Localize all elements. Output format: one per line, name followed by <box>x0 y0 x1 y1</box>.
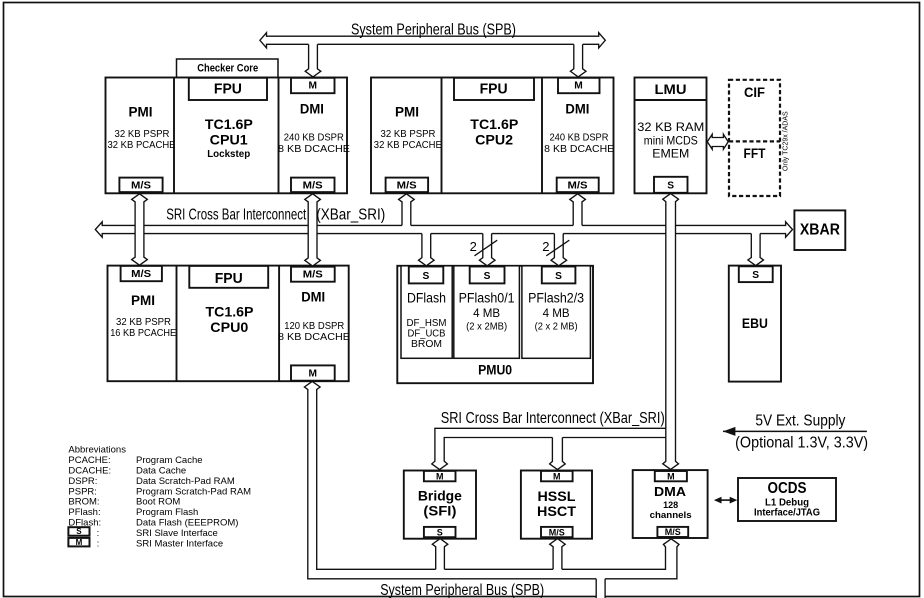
divider CPU2 PMI/core <box>441 78 443 194</box>
svg-text:PFlash:: PFlash: <box>68 507 100 518</box>
svg-text:LMU: LMU <box>655 82 687 97</box>
block XBAR box <box>794 210 845 250</box>
svg-text:PCACHE:: PCACHE: <box>68 455 110 466</box>
svg-text:Checker Core: Checker Core <box>197 62 258 74</box>
svg-text:FFT: FFT <box>744 146 767 161</box>
svg-text:System Peripheral Bus (SPB): System Peripheral Bus (SPB) <box>351 22 516 39</box>
svg-text:M: M <box>667 471 675 481</box>
svg-text:M: M <box>309 368 318 379</box>
wire arrow bottom SPB to HSSL M/S <box>550 539 566 572</box>
svg-text:Abbreviations: Abbreviations <box>68 445 126 456</box>
svg-text:32 KB PSPR: 32 KB PSPR <box>381 129 436 140</box>
svg-text:(XBar_SRI): (XBar_SRI) <box>316 206 385 223</box>
block CPU1 cluster outline <box>106 78 348 194</box>
svg-text:M/S: M/S <box>303 181 323 192</box>
bus bottom SPB pipe (CPU0 M to DMA M/S) <box>304 381 679 578</box>
svg-text:32 KB PCACHE: 32 KB PCACHE <box>374 140 442 151</box>
wire arrow SRI bus to PFlash2/3 S <box>551 231 567 265</box>
svg-text:TC1.6P: TC1.6P <box>470 117 518 132</box>
block CIF/FFT dashed box <box>729 80 780 196</box>
svg-text:SRI Master Interface: SRI Master Interface <box>136 538 223 549</box>
svg-text:FPU: FPU <box>480 81 508 97</box>
svg-text:Boot ROM: Boot ROM <box>136 497 180 508</box>
svg-text:8 KB DCACHE: 8 KB DCACHE <box>544 144 614 155</box>
svg-text:Bridge: Bridge <box>418 487 462 503</box>
legend M box <box>68 538 89 547</box>
svg-text:mini MCDS: mini MCDS <box>644 134 698 148</box>
svg-text:M: M <box>574 81 583 92</box>
wire arrow DMA to OCDS (black double) <box>718 499 733 501</box>
svg-text:2: 2 <box>470 239 477 254</box>
port CPU0 PMI M/S box <box>121 266 162 281</box>
arrowhead 5V supply <box>723 427 735 436</box>
block CPU2 FPU box <box>454 78 534 100</box>
bus-width marker slash PFlash0/1 <box>475 240 498 256</box>
block PMU0 outline <box>397 266 593 383</box>
svg-text:SRI Cross Bar Interconnect: SRI Cross Bar Interconnect <box>166 206 306 223</box>
svg-text:8 KB DCACHE: 8 KB DCACHE <box>278 332 350 343</box>
svg-text:Program Cache: Program Cache <box>136 455 203 466</box>
svg-text:FPU: FPU <box>215 271 243 287</box>
wire 5V supply line <box>723 430 867 432</box>
port Bridge M box <box>424 471 456 481</box>
block PFlash0/1 section <box>454 266 520 359</box>
svg-text:M: M <box>553 471 561 481</box>
svg-text:4 MB: 4 MB <box>473 306 500 320</box>
svg-text:120 KB DSPR: 120 KB DSPR <box>284 321 344 332</box>
svg-text:(Optional 1.3V, 3.3V): (Optional 1.3V, 3.3V) <box>735 434 868 451</box>
svg-text:XBAR: XBAR <box>800 222 840 239</box>
svg-text:S: S <box>752 270 759 281</box>
svg-text:DMI: DMI <box>565 101 589 116</box>
svg-text:240 KB DSPR: 240 KB DSPR <box>550 133 609 144</box>
divider CPU0 core/DMI <box>278 266 280 382</box>
block CPU0 FPU box <box>189 266 268 288</box>
block CPU2 cluster outline <box>371 78 614 194</box>
port PFlash2/3 S box <box>542 267 576 284</box>
block HSSL box <box>521 471 592 539</box>
divider CPU2 core/DMI <box>541 78 543 194</box>
svg-text:Program Scratch-Pad RAM: Program Scratch-Pad RAM <box>136 486 251 497</box>
svg-text:M/S: M/S <box>549 527 565 537</box>
svg-text:TC1.6P: TC1.6P <box>205 117 253 132</box>
svg-text:S: S <box>76 527 82 536</box>
port CPU2 DMI M/S box <box>557 178 599 193</box>
port DMA M/S box <box>657 527 688 537</box>
svg-text:DMA: DMA <box>654 485 686 499</box>
svg-text:M/S: M/S <box>665 527 681 537</box>
svg-text:(2 x 2MB): (2 x 2MB) <box>466 322 507 333</box>
svg-text:PMI: PMI <box>129 105 153 120</box>
svg-text:PMI: PMI <box>131 293 155 308</box>
svg-text:Only TC29x /ADAS: Only TC29x /ADAS <box>783 111 790 171</box>
divider CPU1 PMI/core <box>173 78 175 194</box>
svg-text:M: M <box>436 471 444 481</box>
port CPU2 DMI M box <box>558 78 600 93</box>
block CPU0 cluster outline <box>108 266 349 382</box>
bus-width marker slash PFlash2/3 <box>546 240 569 256</box>
block PFlash2/3 section <box>522 266 591 359</box>
divider LMU header <box>635 99 707 101</box>
svg-text:channels: channels <box>650 510 692 520</box>
port Bridge S box <box>424 527 456 537</box>
svg-text:CPU2: CPU2 <box>475 133 513 148</box>
svg-text::: : <box>97 528 100 539</box>
svg-text:128: 128 <box>663 500 678 510</box>
port CPU1 PMI M/S box <box>119 178 162 193</box>
svg-text:DMI: DMI <box>300 101 324 116</box>
svg-text:M/S: M/S <box>397 181 417 192</box>
port DMA M box <box>655 471 687 481</box>
svg-text:PFlash2/3: PFlash2/3 <box>528 290 584 305</box>
svg-text:32 KB PSPR: 32 KB PSPR <box>116 317 171 328</box>
svg-text:CPU0: CPU0 <box>210 320 248 335</box>
wire arrow SRI bus to PFlash0/1 S <box>479 231 495 265</box>
wire arrow LMU S to DMA M (long vertical) <box>663 194 679 470</box>
svg-text:M: M <box>308 81 317 92</box>
block DMA box <box>633 470 708 538</box>
svg-text:System Peripheral Bus (SPB): System Peripheral Bus (SPB) <box>380 582 544 598</box>
wire arrow SPB to CPU2 DMI M <box>570 42 586 77</box>
block CPU1 Checker Core box <box>177 59 279 78</box>
svg-text:S: S <box>437 527 443 537</box>
svg-text:Program Flash: Program Flash <box>136 507 198 518</box>
wire arrow SRI bus to EBU S <box>748 231 764 265</box>
port HSSL M box <box>541 471 573 481</box>
legend S box <box>68 527 89 536</box>
svg-text:S: S <box>484 271 491 282</box>
svg-text:S: S <box>555 271 562 282</box>
svg-text:Data Cache: Data Cache <box>136 466 186 477</box>
divider CIF/FFT dashed <box>729 140 780 142</box>
block EBU box <box>729 266 781 382</box>
svg-text:M/S: M/S <box>131 181 151 192</box>
svg-text:DF_UCB: DF_UCB <box>408 329 446 340</box>
svg-text:PMI: PMI <box>395 105 419 120</box>
svg-text:OCDS: OCDS <box>768 480 807 497</box>
block CPU1 FPU box <box>189 78 267 100</box>
svg-text:DF_HSM: DF_HSM <box>407 318 447 329</box>
port CPU1 DMI M/S box <box>291 178 335 193</box>
svg-text:32 KB PSPR: 32 KB PSPR <box>115 129 170 140</box>
svg-text:4 MB: 4 MB <box>543 306 570 320</box>
svg-text:S: S <box>667 181 674 192</box>
svg-text:BROM: BROM <box>411 339 442 350</box>
port CPU0 DMI M box <box>291 365 335 380</box>
svg-text:PSPR:: PSPR: <box>68 486 97 497</box>
svg-text:CIF: CIF <box>744 85 765 100</box>
svg-text:240 KB DSPR: 240 KB DSPR <box>284 133 344 144</box>
divider CPU1 core/DMI <box>278 78 280 194</box>
svg-text:16 KB PCACHE: 16 KB PCACHE <box>110 328 176 339</box>
svg-text:M/S: M/S <box>303 270 323 281</box>
wire arrow SRI bus to DFlash S <box>419 231 435 265</box>
svg-text:8 KB DCACHE: 8 KB DCACHE <box>278 144 350 155</box>
svg-text:(2 x 2 MB): (2 x 2 MB) <box>535 322 578 333</box>
port CPU0 DMI M/S box <box>291 267 335 282</box>
svg-text:DSPR:: DSPR: <box>68 476 97 487</box>
svg-text::: : <box>97 538 100 549</box>
svg-text:DFlash: DFlash <box>407 290 446 305</box>
bus System Peripheral Bus top (hollow double arrow) <box>260 33 605 48</box>
svg-text:SRI Slave Interface: SRI Slave Interface <box>136 528 218 539</box>
svg-text:TC1.6P: TC1.6P <box>206 305 254 320</box>
svg-text:Data Flash (EEEPROM): Data Flash (EEEPROM) <box>136 518 238 529</box>
port HSSL M/S box <box>541 527 573 537</box>
svg-text:32 KB RAM: 32 KB RAM <box>637 120 704 134</box>
wire arrow CPU1 DMI M/S to CPU0 DMI M/S <box>305 194 321 266</box>
svg-text:2: 2 <box>542 239 549 254</box>
svg-text:Lockstep: Lockstep <box>207 148 250 160</box>
svg-text:5V Ext. Supply: 5V Ext. Supply <box>755 413 845 430</box>
wire bottom SPB stub down lines <box>595 579 597 598</box>
block Bridge box <box>404 471 476 539</box>
svg-text:EBU: EBU <box>742 316 768 331</box>
divider CPU0 PMI/core <box>176 266 178 382</box>
svg-text:PMU0: PMU0 <box>478 363 512 378</box>
svg-text:M/S: M/S <box>131 269 151 280</box>
wire arrow LMU to CIF/FFT (hollow horizontal) <box>707 134 728 149</box>
wire arrow CPU2 PMI M/S to SRI bus <box>399 194 415 228</box>
svg-text:M: M <box>76 538 83 547</box>
svg-text:HSSL: HSSL <box>538 488 576 504</box>
svg-text:HSCT: HSCT <box>537 503 576 519</box>
block OCDS box <box>738 478 836 521</box>
svg-text:DCACHE:: DCACHE: <box>68 466 111 477</box>
wire bottom SPB stub down (erase) <box>596 577 605 598</box>
svg-text:(SFI): (SFI) <box>423 503 456 519</box>
svg-text:DMI: DMI <box>301 289 325 304</box>
svg-text:CPU1: CPU1 <box>210 133 249 148</box>
wire arrow SPB to CPU1 DMI M <box>305 42 321 77</box>
port CPU1 DMI M box <box>291 78 335 93</box>
svg-text:PFlash0/1: PFlash0/1 <box>459 290 515 305</box>
wire arrow rail to HSSL M <box>550 435 566 469</box>
svg-text:S: S <box>423 271 430 282</box>
block DFlash section <box>401 266 452 359</box>
svg-text:32 KB PCACHE: 32 KB PCACHE <box>108 140 176 151</box>
bus SRI Cross Bar (hollow double arrow into XBAR) <box>95 222 792 237</box>
port EBU S box <box>739 266 773 282</box>
wire arrow CPU2 DMI M/S to SRI bus <box>570 194 586 228</box>
svg-text:EMEM: EMEM <box>652 147 689 161</box>
wire arrow bottom SPB to Bridge S <box>432 539 448 572</box>
svg-text:FPU: FPU <box>214 81 242 97</box>
port CPU2 PMI M/S box <box>386 178 429 193</box>
svg-text:Interface/JTAG: Interface/JTAG <box>754 508 820 519</box>
svg-text:SRI Cross Bar Interconnect (XB: SRI Cross Bar Interconnect (XBar_SRI) <box>441 410 665 427</box>
svg-text:M/S: M/S <box>568 181 588 192</box>
wire SRI rail to Bridge M (hollow elbow) <box>432 428 667 469</box>
port LMU S box <box>654 177 688 193</box>
svg-text:Data Scratch-Pad RAM: Data Scratch-Pad RAM <box>136 476 235 487</box>
port PFlash0/1 S box <box>470 267 505 284</box>
port DFlash S box <box>409 267 444 284</box>
block LMU box <box>635 78 707 194</box>
svg-text:BROM:: BROM: <box>68 497 99 508</box>
wire arrow CPU1 PMI M/S to CPU0 PMI M/S <box>132 194 148 265</box>
